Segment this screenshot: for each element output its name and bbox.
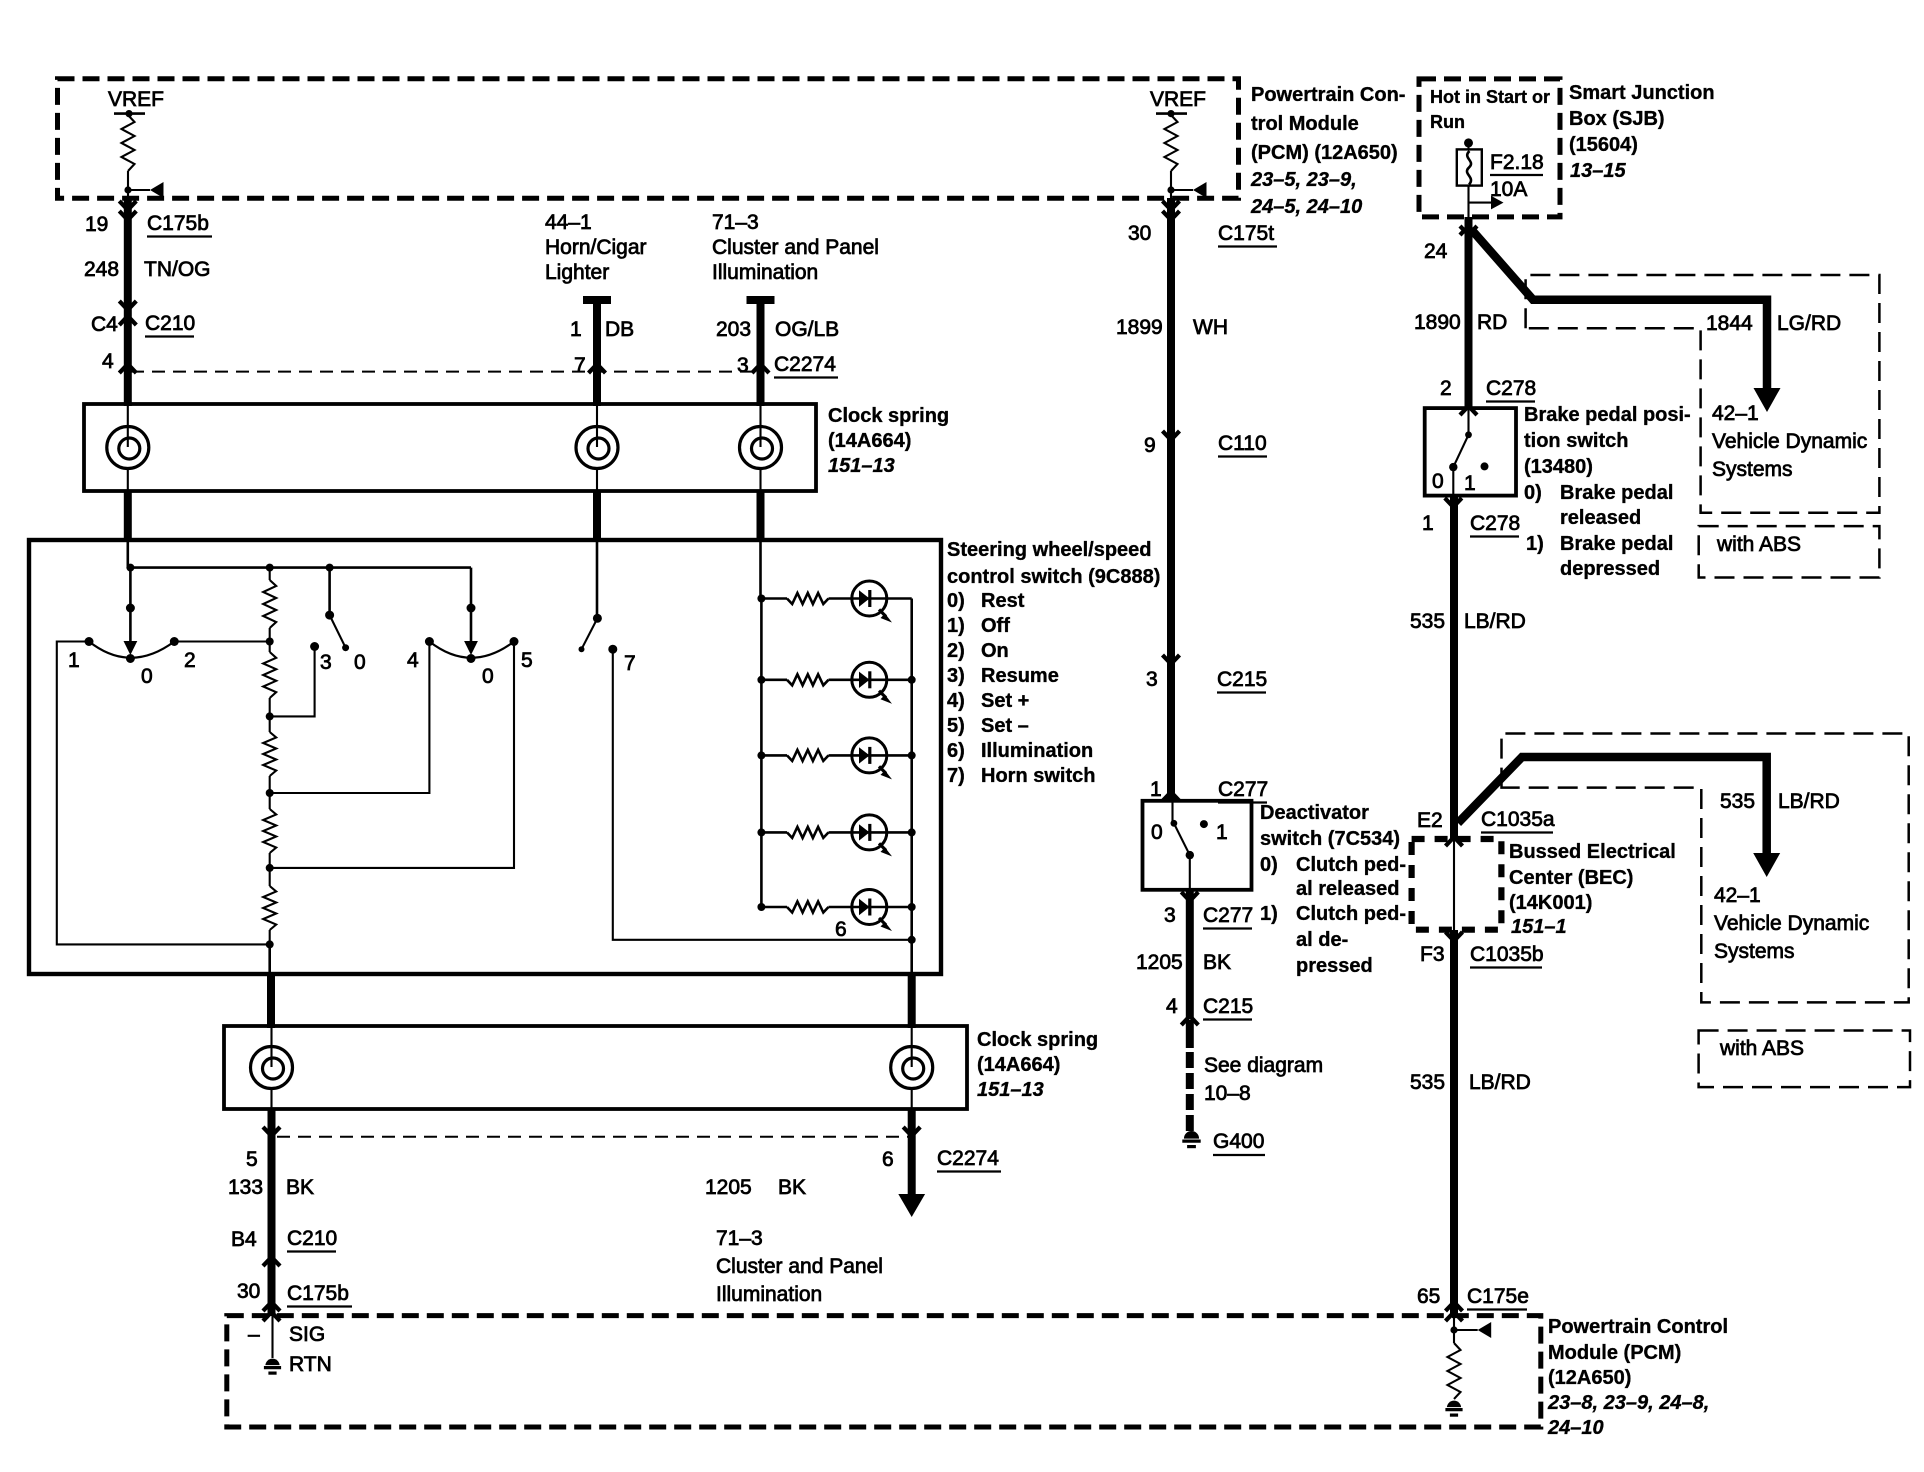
svg-text:Module (PCM): Module (PCM) <box>1548 1342 1681 1364</box>
svg-text:Hot in Start or: Hot in Start or <box>1430 87 1550 107</box>
clock spring coil right <box>740 427 782 469</box>
svg-text:LB/RD: LB/RD <box>1778 790 1840 813</box>
connector C2274 label (bottom) <box>937 1147 1001 1172</box>
resistor (PCM pull-down, pin 65) <box>1448 1343 1461 1399</box>
svg-text:SIG: SIG <box>289 1323 325 1346</box>
svg-text:al de-: al de- <box>1296 929 1348 951</box>
svg-text:BK: BK <box>1203 951 1231 974</box>
svg-text:24–10: 24–10 <box>1547 1417 1604 1439</box>
resistor lamp R5 <box>761 906 787 909</box>
deactivator internal switch <box>1171 801 1195 890</box>
svg-text:Systems: Systems <box>1712 458 1793 481</box>
steering wheel/speed control switch (9C888) box <box>29 540 941 974</box>
PCM bottom label <box>1547 1316 1728 1439</box>
clock spring (14A664) upper box <box>84 404 816 491</box>
svg-text:C278: C278 <box>1486 377 1536 400</box>
svg-text:Center (BEC): Center (BEC) <box>1509 867 1633 889</box>
wire horn contact 7 to lamp return bus <box>613 649 912 940</box>
svg-text:9: 9 <box>1144 434 1156 457</box>
wire 248 TN/OG (PCM pin 19 to clock spring) <box>124 198 132 406</box>
wire through clock spring middle <box>596 404 598 447</box>
svg-text:trol Module: trol Module <box>1251 113 1359 135</box>
svg-text:C2274: C2274 <box>937 1147 999 1170</box>
svg-text:0: 0 <box>1151 821 1163 844</box>
wire through BEC <box>1453 840 1455 930</box>
wire below clock spring 2 right (1205 BK) <box>908 1109 916 1196</box>
svg-text:7: 7 <box>624 652 636 675</box>
svg-text:0): 0) <box>1524 482 1542 504</box>
SW3 labels 4 0 5 <box>407 649 533 688</box>
node lamp bus row 4 <box>757 828 765 836</box>
svg-text:Systems: Systems <box>1714 940 1795 963</box>
connector C2274 marker (pin 5) <box>263 1127 280 1136</box>
svg-text:6: 6 <box>835 918 847 941</box>
connector C215 label <box>1217 668 1267 693</box>
svg-text:42–1: 42–1 <box>1712 402 1759 425</box>
svg-text:30: 30 <box>1128 222 1151 245</box>
svg-text:0: 0 <box>354 651 366 674</box>
svg-text:7): 7) <box>947 765 965 787</box>
svg-text:2): 2) <box>947 640 965 662</box>
svg-text:(14A664): (14A664) <box>977 1054 1060 1076</box>
brake switch internal <box>1449 408 1472 496</box>
node junction with sense arrow (right) <box>1167 182 1206 198</box>
clock spring 2 label <box>977 1029 1098 1101</box>
svg-text:(14K001): (14K001) <box>1509 892 1592 914</box>
source flag 44-1 Horn/Cigar Lighter <box>545 211 647 284</box>
SJB hot label <box>1430 87 1550 132</box>
svg-text:Illumination: Illumination <box>716 1283 822 1306</box>
svg-text:1205: 1205 <box>1136 951 1183 974</box>
switch SW2 (3-0 resume) <box>310 568 349 652</box>
svg-text:30: 30 <box>237 1280 260 1303</box>
wiper feed wire to switch 4-0-5 <box>464 568 478 655</box>
svg-text:Cluster and Panel: Cluster and Panel <box>712 236 879 259</box>
wire label 203 OG/LB <box>716 318 839 341</box>
connector C175t marker (pin 30) <box>1163 201 1180 210</box>
svg-text:3: 3 <box>320 651 332 674</box>
svg-text:Steering wheel/speed: Steering wheel/speed <box>947 539 1152 561</box>
BEC label <box>1509 841 1676 938</box>
Powertrain Control Module (PCM) bottom dashed box <box>227 1316 1541 1427</box>
svg-text:Clock spring: Clock spring <box>828 405 949 427</box>
svg-text:0: 0 <box>1432 470 1444 493</box>
connector C1035b label <box>1470 943 1544 968</box>
LED3 indicator <box>829 738 912 780</box>
Powertrain Control Module (PCM) top dashed box <box>58 79 1239 199</box>
destination 42-1 Vehicle Dynamic Systems label (upper) <box>1712 402 1867 481</box>
node chain-2 <box>266 638 274 646</box>
svg-text:1): 1) <box>1526 533 1544 555</box>
svg-text:1: 1 <box>1216 821 1228 844</box>
wire OG/LB into lamp bus <box>759 542 762 599</box>
svg-text:G400: G400 <box>1213 1130 1264 1153</box>
wire contact 1 to resistor chain bottom <box>57 642 270 945</box>
svg-text:DB: DB <box>605 318 634 341</box>
node chain-bottom <box>266 940 274 948</box>
svg-text:535: 535 <box>1720 790 1755 813</box>
svg-text:0): 0) <box>947 590 965 612</box>
wire label 1205 BK <box>705 1176 806 1199</box>
svg-text:1: 1 <box>1422 512 1434 535</box>
node return bus to horn wire <box>908 936 916 944</box>
brake pedal position switch label <box>1524 404 1691 580</box>
svg-text:TN/OG: TN/OG <box>144 258 211 281</box>
svg-text:Brake pedal posi-: Brake pedal posi- <box>1524 404 1691 426</box>
svg-text:C1035b: C1035b <box>1470 943 1544 966</box>
svg-text:4: 4 <box>102 350 114 373</box>
resistor lamp R3 <box>761 754 787 757</box>
connector C175b label (bottom) <box>287 1282 352 1307</box>
connector C277 marker (pin 1) <box>1163 792 1180 801</box>
svg-text:151–13: 151–13 <box>828 455 895 477</box>
svg-text:Horn switch: Horn switch <box>981 765 1095 787</box>
PCM input node with sense arrow (pin 65) <box>1450 1316 1491 1343</box>
svg-text:E2: E2 <box>1417 809 1443 832</box>
fuse F2.18 label <box>1490 151 1544 201</box>
svg-text:Deactivator: Deactivator <box>1260 802 1369 824</box>
see diagram note <box>1204 1054 1323 1105</box>
wire clock spring to switch box middle <box>593 491 601 542</box>
node chain-3 <box>266 712 274 720</box>
lamp return bus (right) <box>910 599 913 975</box>
svg-text:with ABS: with ABS <box>1719 1037 1804 1060</box>
node lamp return bus row 5 <box>908 903 916 911</box>
wire label 535 LB/RD <box>1410 610 1526 633</box>
brake pedal position switch (13480) box <box>1425 408 1516 496</box>
node chain-5 <box>266 864 274 872</box>
Smart Junction Box (SJB) dashed box <box>1419 79 1560 217</box>
svg-text:LB/RD: LB/RD <box>1469 1071 1531 1094</box>
svg-text:Off: Off <box>981 615 1010 637</box>
svg-text:3: 3 <box>1146 668 1158 691</box>
connector C110 label <box>1218 432 1267 457</box>
LED5 (illumination) indicator <box>829 890 912 932</box>
clock spring coil middle <box>576 427 618 469</box>
wire resistor to pin 30 <box>1170 171 1172 198</box>
clock spring coil lower-right <box>891 1047 933 1089</box>
node lamp return bus row 2 <box>908 676 916 684</box>
svg-text:7: 7 <box>574 354 586 377</box>
svg-text:5): 5) <box>947 715 965 737</box>
svg-text:2: 2 <box>184 649 196 672</box>
svg-text:See diagram: See diagram <box>1204 1054 1323 1077</box>
wire label 248 TN/OG <box>84 258 211 281</box>
wire 1 DB (44-1 feed to clock spring) <box>583 300 611 406</box>
switch box label <box>947 539 1160 588</box>
svg-text:151–13: 151–13 <box>977 1079 1044 1101</box>
wire clock spring to switch box right <box>757 491 765 542</box>
svg-text:1: 1 <box>68 649 80 672</box>
connector C277 label (lower) <box>1203 904 1253 929</box>
svg-text:133: 133 <box>228 1176 263 1199</box>
connector C210 label <box>145 312 195 337</box>
branch wire 535 LB/RD to Vehicle Dynamic Systems (lower) <box>1458 757 1780 877</box>
resistor lamp R2 <box>761 678 787 681</box>
svg-text:1844: 1844 <box>1706 312 1753 335</box>
svg-text:5: 5 <box>246 1148 258 1171</box>
wire 535 LB/RD (BEC to PCM pin 65) <box>1450 930 1458 1316</box>
wire through clock spring right <box>759 404 761 447</box>
fuse F2.18 10A <box>1457 138 1482 185</box>
svg-text:Bussed Electrical: Bussed Electrical <box>1509 841 1676 863</box>
wire below clock spring 2 left <box>268 1109 276 1316</box>
svg-text:6: 6 <box>882 1148 894 1171</box>
svg-text:203: 203 <box>716 318 751 341</box>
svg-text:13–15: 13–15 <box>1570 160 1626 182</box>
svg-text:2: 2 <box>1440 377 1452 400</box>
svg-text:Brake pedal: Brake pedal <box>1560 482 1673 504</box>
node bus-left <box>126 564 134 572</box>
brake switch labels 0 1 dot <box>1432 462 1489 495</box>
wire 535 LB/RD (brake switch to BEC) <box>1450 496 1458 840</box>
wire clock spring to switch box left <box>124 491 132 542</box>
svg-text:C215: C215 <box>1203 995 1253 1018</box>
resistor R5 (chain) <box>269 868 271 886</box>
svg-text:released: released <box>1560 507 1641 529</box>
LED2 indicator <box>829 662 912 704</box>
connector C278 marker (pin 1) <box>1445 498 1462 507</box>
wire label 535 LB/RD (branch) <box>1720 790 1840 813</box>
svg-text:0: 0 <box>141 665 153 688</box>
resistor R-VREF left inside PCM <box>122 115 135 171</box>
svg-text:(15604): (15604) <box>1569 134 1638 156</box>
svg-text:248: 248 <box>84 258 119 281</box>
svg-text:Powertrain Control: Powertrain Control <box>1548 1316 1728 1338</box>
connector C278 marker (pin 2) <box>1460 406 1477 415</box>
svg-text:3: 3 <box>1164 904 1176 927</box>
wiper feed wire to switch 1-0-2 <box>124 568 138 655</box>
svg-text:Rest: Rest <box>981 590 1025 612</box>
switch position legend list <box>947 590 1095 787</box>
svg-text:C210: C210 <box>145 312 195 335</box>
ground G400 <box>1184 1131 1199 1139</box>
node lamp bus row 1 <box>757 595 765 603</box>
svg-text:(14A664): (14A664) <box>828 430 911 452</box>
svg-text:1: 1 <box>1464 472 1476 495</box>
svg-text:Cluster and Panel: Cluster and Panel <box>716 1255 883 1278</box>
pin SIG label <box>248 1323 325 1346</box>
node lamp return bus row 4 <box>908 828 916 836</box>
svg-text:44–1: 44–1 <box>545 211 592 234</box>
wire chain node to contact 4 <box>270 642 430 794</box>
connector C1035a label <box>1481 808 1555 833</box>
svg-text:1: 1 <box>1150 778 1162 801</box>
svg-text:1205: 1205 <box>705 1176 752 1199</box>
destination arrow to 71-3 <box>898 1194 925 1217</box>
svg-text:C210: C210 <box>287 1227 337 1250</box>
svg-text:B4: B4 <box>231 1228 257 1251</box>
resistor lamp R1 <box>761 597 787 600</box>
wire SIG RTN to ground <box>271 1316 273 1358</box>
switch SW1 (1-0-2) rotary <box>85 637 179 663</box>
svg-text:OG/LB: OG/LB <box>775 318 839 341</box>
svg-text:depressed: depressed <box>1560 558 1660 580</box>
destination 42-1 Vehicle Dynamic Systems label (lower) <box>1714 884 1869 963</box>
svg-text:71–3: 71–3 <box>712 211 759 234</box>
svg-text:0: 0 <box>482 665 494 688</box>
svg-text:1899: 1899 <box>1116 316 1163 339</box>
svg-text:C215: C215 <box>1217 668 1267 691</box>
svg-text:C175b: C175b <box>287 1282 349 1305</box>
connector C175e label <box>1467 1285 1529 1310</box>
svg-text:Illumination: Illumination <box>712 261 818 284</box>
svg-text:C278: C278 <box>1470 512 1520 535</box>
svg-text:F2.18: F2.18 <box>1490 151 1544 174</box>
source flag 71-3 Cluster and Panel Illumination <box>712 211 879 284</box>
connector C175b marker (pin 19) <box>119 201 136 210</box>
lamp supply bus (left) <box>760 599 763 908</box>
connector C175b marker (pin 30) <box>263 1302 280 1311</box>
connector C2274 lower interface dashed line <box>277 1136 908 1138</box>
svg-text:0): 0) <box>1260 854 1278 876</box>
svg-text:1890: 1890 <box>1414 311 1461 334</box>
svg-text:151–1: 151–1 <box>1511 916 1567 938</box>
svg-text:F3: F3 <box>1420 943 1445 966</box>
svg-text:Set –: Set – <box>981 715 1029 737</box>
svg-text:4): 4) <box>947 690 965 712</box>
deactivator switch label <box>1260 802 1406 977</box>
wire through clock spring left <box>127 404 129 447</box>
wire through lower clock spring left <box>270 1026 272 1067</box>
connector C175b label <box>147 212 212 237</box>
svg-text:control switch (9C888): control switch (9C888) <box>947 566 1160 588</box>
PCM top label <box>1250 84 1405 218</box>
connector C2274 marker (pin 6) <box>903 1127 920 1136</box>
resistor lamp R4 <box>761 831 787 834</box>
connector C278 label (lower) <box>1470 512 1520 537</box>
ground (PCM internal) <box>1447 1401 1461 1408</box>
wire through lower clock spring right <box>911 1026 913 1067</box>
svg-text:Resume: Resume <box>981 665 1059 687</box>
svg-text:C277: C277 <box>1218 778 1268 801</box>
switch SW3 (4-0-5) rotary <box>425 637 519 663</box>
svg-text:VREF: VREF <box>1150 88 1206 111</box>
clock spring 1 label <box>828 405 949 477</box>
node chain-4 <box>266 789 274 797</box>
svg-text:C110: C110 <box>1218 432 1267 455</box>
svg-text:(PCM) (12A650): (PCM) (12A650) <box>1251 142 1398 164</box>
dashed continuation wire to G400 <box>1186 1052 1194 1131</box>
svg-text:BK: BK <box>286 1176 314 1199</box>
wire chain node to contact 5 <box>270 642 514 868</box>
wire 203 OG/LB (71-3 feed to clock spring) <box>747 300 775 406</box>
svg-text:Box (SJB): Box (SJB) <box>1569 108 1665 130</box>
wire label 1890 RD <box>1414 311 1507 334</box>
svg-text:C277: C277 <box>1203 904 1253 927</box>
with ABS dashed box (upper) <box>1699 526 1880 577</box>
connector C2274 label <box>774 353 838 378</box>
wire stub below C215 <box>1186 1020 1194 1048</box>
connector C2274 interface dashed line <box>131 371 760 373</box>
wire label 535 LB/RD (bottom) <box>1410 1071 1531 1094</box>
connector C2274 marker (pin 3) <box>752 364 769 373</box>
svg-text:C175t: C175t <box>1218 222 1274 245</box>
deactivator labels 0 dot 1 <box>1151 820 1228 844</box>
wire chain bottom out of box <box>268 944 271 974</box>
svg-text:Clock spring: Clock spring <box>977 1029 1098 1051</box>
connector C2274 marker (pin 4) <box>119 364 136 373</box>
svg-text:1): 1) <box>1260 903 1278 925</box>
svg-text:Horn/Cigar: Horn/Cigar <box>545 236 647 259</box>
destination flag 71-3 Cluster and Panel Illumination <box>716 1227 883 1306</box>
svg-text:pressed: pressed <box>1296 955 1373 977</box>
svg-text:535: 535 <box>1410 1071 1445 1094</box>
svg-text:al released: al released <box>1296 878 1399 900</box>
svg-text:C4: C4 <box>91 313 118 336</box>
connector C175e marker (pin 65) <box>1446 1302 1463 1311</box>
connector C277 marker (pin 3) <box>1181 892 1198 901</box>
svg-text:–: – <box>248 1323 260 1346</box>
resistor R-VREF right inside PCM <box>1165 115 1178 171</box>
svg-text:Illumination: Illumination <box>981 740 1093 762</box>
connector C210 label (bottom) <box>287 1227 337 1252</box>
svg-text:C175e: C175e <box>1467 1285 1529 1308</box>
node bus-resistor-chain <box>266 564 274 572</box>
svg-text:C2274: C2274 <box>774 353 836 376</box>
svg-text:C175b: C175b <box>147 212 209 235</box>
connector C1035a marker (pin E2) <box>1446 837 1463 846</box>
node lamp return bus row 3 <box>908 751 916 759</box>
SW1 labels 1 0 2 <box>68 649 196 688</box>
svg-text:1: 1 <box>570 318 582 341</box>
connector marker (pin 24) <box>1460 226 1477 235</box>
svg-text:535: 535 <box>1410 610 1445 633</box>
LED1 indicator <box>829 581 912 623</box>
ground G400 label <box>1213 1130 1265 1155</box>
svg-text:tion switch: tion switch <box>1524 430 1628 452</box>
wire label 133 BK <box>228 1176 314 1199</box>
connector C278 label <box>1486 377 1536 402</box>
SJB label <box>1569 82 1715 182</box>
resistor R4 (chain) <box>269 793 271 809</box>
svg-text:3): 3) <box>947 665 965 687</box>
svg-text:24–5, 24–10: 24–5, 24–10 <box>1250 196 1362 218</box>
resistor R2 (chain) <box>269 642 271 653</box>
wire 1890 RD (SJB to brake switch) <box>1465 217 1473 409</box>
svg-text:3: 3 <box>737 354 749 377</box>
svg-text:WH: WH <box>1193 316 1228 339</box>
connector C215 label (lower) <box>1203 995 1253 1020</box>
svg-text:C1035a: C1035a <box>1481 808 1555 831</box>
wire 1205 BK (deactivator to C215) <box>1186 890 1194 1018</box>
wire label 1899 WH <box>1116 316 1228 339</box>
internal supply bus wire <box>130 566 471 569</box>
connector C1035b marker (pin F3) <box>1446 932 1463 941</box>
svg-text:Clutch ped-: Clutch ped- <box>1296 854 1406 876</box>
svg-text:(13480): (13480) <box>1524 456 1593 478</box>
connector C215 marker (pin 4) <box>1181 1016 1198 1025</box>
svg-text:switch (7C534): switch (7C534) <box>1260 828 1400 850</box>
resistor R1 (chain) <box>263 580 276 628</box>
wire label 1205 BK <box>1136 951 1231 974</box>
deactivator switch (7C534) box <box>1143 801 1252 890</box>
svg-text:Vehicle Dynamic: Vehicle Dynamic <box>1712 430 1867 453</box>
svg-text:42–1: 42–1 <box>1714 884 1761 907</box>
svg-text:4: 4 <box>1166 995 1178 1018</box>
svg-text:On: On <box>981 640 1009 662</box>
wire chain node to contact 3 <box>270 647 315 717</box>
svg-text:65: 65 <box>1417 1285 1440 1308</box>
svg-text:with ABS: with ABS <box>1716 533 1801 556</box>
svg-text:Clutch ped-: Clutch ped- <box>1296 903 1406 925</box>
svg-text:LG/RD: LG/RD <box>1777 312 1841 335</box>
connector C175t label <box>1218 222 1277 247</box>
svg-text:1): 1) <box>947 615 965 637</box>
svg-text:Powertrain Con-: Powertrain Con- <box>1251 84 1405 106</box>
svg-text:19: 19 <box>85 213 108 236</box>
ground (PCM signal return) <box>265 1359 279 1366</box>
